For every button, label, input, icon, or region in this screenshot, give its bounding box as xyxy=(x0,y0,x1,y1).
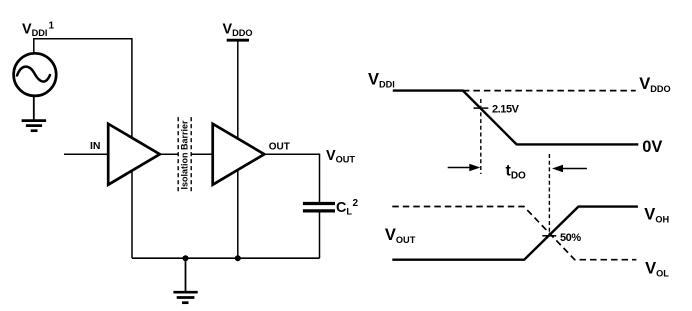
ground rail wire xyxy=(132,257,320,259)
wire U2 output to capacitor CL xyxy=(264,154,319,202)
wire VDDO to U2 top (power) xyxy=(237,40,239,140)
svg-text:Isolation Barrier: Isolation Barrier xyxy=(180,120,190,190)
svg-text:0V: 0V xyxy=(642,138,662,156)
isolation barrier dashed line right xyxy=(190,117,192,193)
svg-text:IN: IN xyxy=(90,140,101,152)
isolation barrier dashed line left xyxy=(177,117,179,193)
waveform VDDO dashed level xyxy=(463,90,636,92)
svg-text:50%: 50% xyxy=(560,232,581,244)
wire capacitor bottom to ground rail xyxy=(319,212,321,258)
VDDO power bar xyxy=(227,39,249,42)
ground under source xyxy=(22,121,46,131)
wire source bottom to ground xyxy=(33,96,35,120)
AC source sine wave xyxy=(17,67,50,82)
waveform VDDI solid trace xyxy=(393,91,639,145)
wire isolation barrier to buffer U2 xyxy=(191,153,212,155)
waveform VOUT dashed trace (falling) xyxy=(392,207,636,260)
junction dot U2 xyxy=(235,255,241,261)
cross mark at 50% xyxy=(542,235,556,237)
buffer U1 triangle xyxy=(108,124,160,185)
svg-text:2.15V: 2.15V xyxy=(492,103,520,115)
waveform VOUT solid trace (rising) xyxy=(392,207,638,260)
ground symbol bottom xyxy=(173,292,197,303)
vertical dashed line at 50% crossing xyxy=(548,154,550,236)
capacitor CL plates xyxy=(303,202,335,205)
junction dot ground xyxy=(183,255,189,261)
tDO right arrow xyxy=(552,165,587,173)
wire U1 bottom to ground rail xyxy=(131,170,133,258)
tDO left arrow xyxy=(448,164,481,172)
vertical dashed line at 2.15V crossing xyxy=(480,99,482,174)
wire rail to ground symbol xyxy=(185,258,187,291)
AC source V1 circle xyxy=(14,53,57,96)
buffer U2 triangle xyxy=(213,124,265,185)
wire from source top to triangle U1 top (power) xyxy=(34,39,132,139)
wire U2 bottom to ground rail xyxy=(237,170,239,259)
wire IN stub xyxy=(64,153,108,155)
wire U1 output to isolation barrier xyxy=(160,153,178,155)
cross mark at 2.15V xyxy=(474,107,489,109)
svg-text:OUT: OUT xyxy=(269,141,290,152)
